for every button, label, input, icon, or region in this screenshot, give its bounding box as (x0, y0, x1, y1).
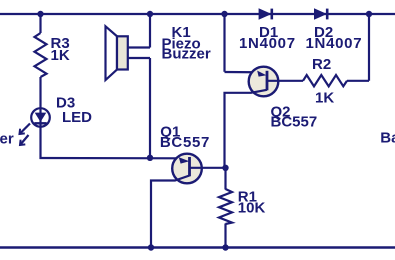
svg-text:Buzzer: Buzzer (162, 46, 211, 63)
svg-text:R2: R2 (312, 56, 331, 73)
svg-text:er: er (0, 130, 14, 147)
svg-text:1N4007: 1N4007 (306, 35, 363, 52)
svg-text:10K: 10K (238, 199, 266, 216)
svg-text:BC557: BC557 (271, 114, 318, 131)
svg-text:1K: 1K (315, 90, 334, 107)
svg-text:1N4007: 1N4007 (239, 35, 296, 52)
svg-text:Battery: Battery (380, 129, 395, 146)
svg-text:1K: 1K (51, 47, 70, 64)
svg-text:BC557: BC557 (160, 134, 210, 151)
svg-text:LED: LED (62, 109, 92, 126)
